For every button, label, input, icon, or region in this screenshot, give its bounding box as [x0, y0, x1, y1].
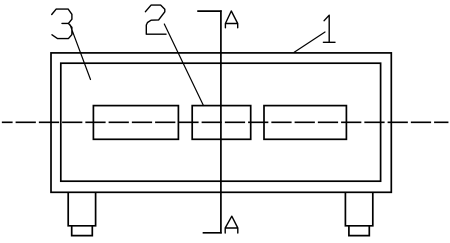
- section marker bottom bracket: [204, 232, 221, 234]
- centerline: [3, 121, 448, 123]
- middle slot (part 2): [192, 106, 251, 140]
- right slot: [264, 106, 346, 140]
- leader line for label 3: [70, 25, 91, 80]
- leader line for label 1: [294, 32, 325, 52]
- right foot: [345, 192, 372, 226]
- leader line for label 2: [164, 24, 203, 106]
- label digit 2: [145, 5, 166, 34]
- right foot step: [349, 226, 369, 236]
- label digit 1: [323, 15, 335, 42]
- section marker top bracket: [198, 10, 221, 12]
- outer rectangle (housing, part 1): [51, 53, 391, 192]
- label digit 3: [52, 9, 72, 38]
- letter A top: [225, 11, 237, 28]
- left slot: [93, 106, 178, 140]
- left foot step: [72, 226, 93, 236]
- left foot: [68, 192, 95, 226]
- letter A bottom: [225, 216, 238, 233]
- inner rectangle: [61, 63, 381, 181]
- section line A-A vertical: [220, 11, 222, 233]
